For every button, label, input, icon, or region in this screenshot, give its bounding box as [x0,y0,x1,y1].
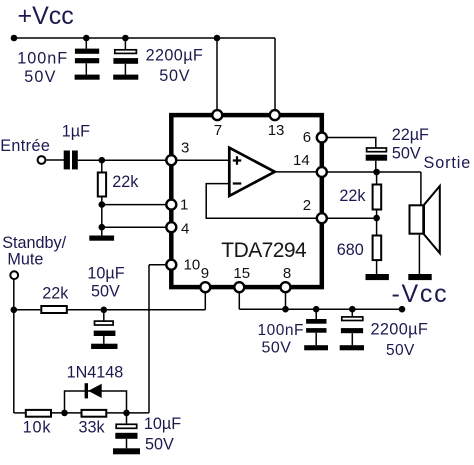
svg-text:10µF: 10µF [144,415,181,433]
svg-text:Mute: Mute [7,250,43,268]
svg-text:22µF: 22µF [392,126,429,144]
svg-text:9: 9 [201,265,209,282]
svg-text:2200µF: 2200µF [371,321,429,339]
svg-text:13: 13 [268,122,285,139]
svg-text:50V: 50V [145,435,174,453]
svg-text:33k: 33k [79,418,106,436]
svg-text:22k: 22k [42,285,69,303]
svg-text:50V: 50V [386,342,415,359]
svg-text:-Vcc: -Vcc [392,280,449,308]
svg-text:+Vcc: +Vcc [18,2,74,30]
svg-text:1N4148: 1N4148 [67,363,124,381]
svg-text:50V: 50V [91,282,120,300]
svg-text:1µF: 1µF [62,123,90,141]
svg-text:15: 15 [233,265,250,282]
svg-text:Entrée: Entrée [0,137,50,155]
svg-text:50V: 50V [262,339,292,356]
svg-text:22k: 22k [339,187,366,205]
svg-text:680: 680 [337,241,364,259]
svg-text:4: 4 [181,220,189,237]
svg-text:10: 10 [184,256,201,273]
svg-text:Standby/: Standby/ [2,234,66,252]
svg-text:2200µF: 2200µF [146,46,204,64]
svg-text:1: 1 [180,197,188,214]
svg-text:50V: 50V [159,67,190,85]
svg-text:3: 3 [181,140,189,157]
svg-text:100nF: 100nF [17,50,68,68]
svg-text:50V: 50V [392,144,421,162]
svg-text:22k: 22k [112,173,139,191]
svg-text:6: 6 [303,129,311,146]
svg-text:TDA7294: TDA7294 [221,239,307,262]
svg-text:14: 14 [293,152,310,169]
svg-text:Sortie: Sortie [424,154,472,172]
svg-text:2: 2 [303,197,311,214]
svg-text:7: 7 [214,122,222,139]
svg-text:10k: 10k [23,418,52,436]
svg-text:100nF: 100nF [258,322,304,339]
svg-text:10µF: 10µF [87,264,124,282]
svg-text:50V: 50V [24,68,56,86]
svg-text:8: 8 [283,265,291,282]
